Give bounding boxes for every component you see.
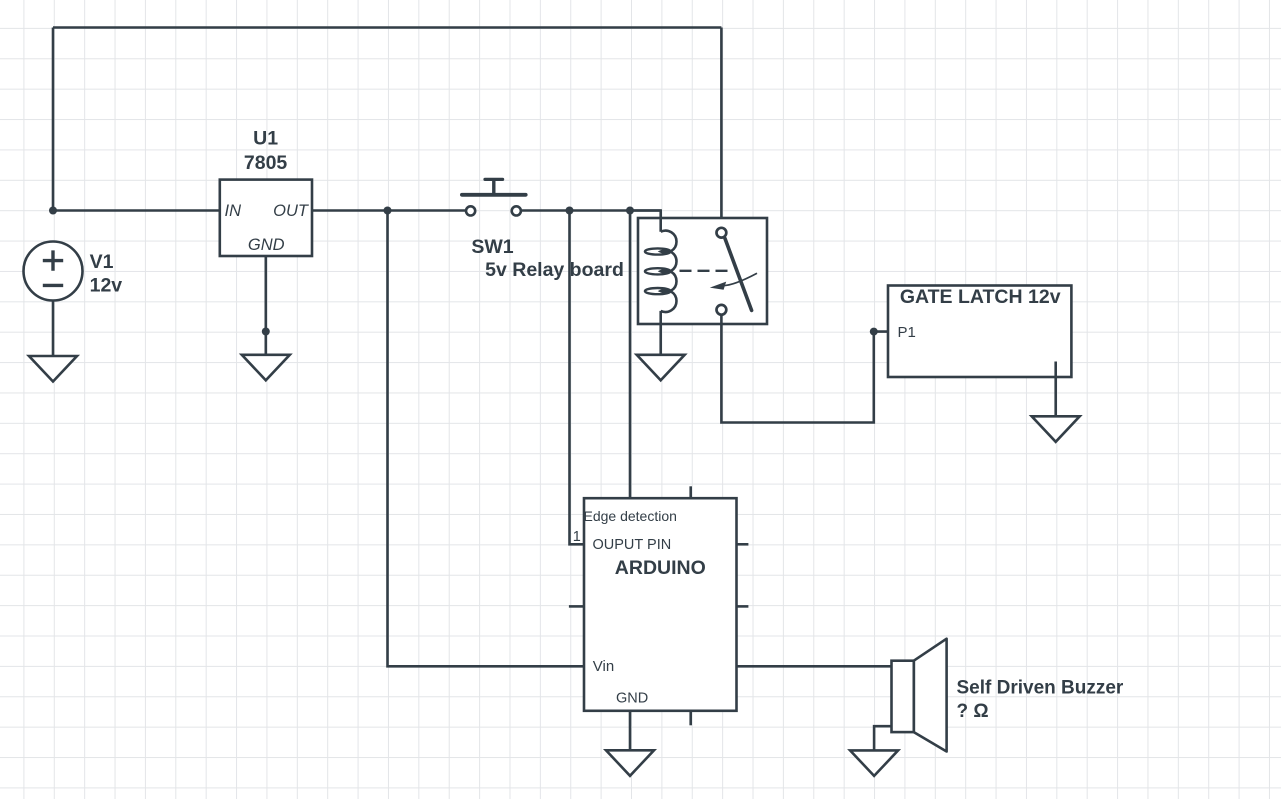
wire U1 GND to ground	[264, 256, 267, 355]
svg-text:ARDUINO: ARDUINO	[615, 557, 706, 579]
wire V1 to top rail	[52, 28, 55, 211]
regulator U1 7805	[220, 180, 312, 256]
pin Arduino right row1 stub	[737, 543, 749, 546]
ground buzzer	[850, 750, 898, 776]
svg-text:12v: 12v	[90, 275, 123, 297]
label ? ohm	[957, 701, 989, 722]
label 5v Relay board	[485, 259, 624, 281]
svg-text:? Ω: ? Ω	[957, 701, 989, 722]
relay actuation arrow	[710, 273, 757, 290]
wire U1 OUT to SW1	[312, 209, 466, 212]
wire output rail to Arduino pin 1	[570, 211, 585, 545]
svg-text:IN: IN	[225, 202, 242, 220]
svg-text:1: 1	[573, 529, 581, 545]
pin Arduino top stub	[689, 486, 692, 498]
wire main rail V1 to U1 IN	[53, 209, 220, 212]
switch SW1	[462, 179, 526, 215]
relay coil	[645, 231, 677, 312]
svg-text:GATE LATCH 12v: GATE LATCH 12v	[900, 286, 1061, 308]
relay NO contact	[717, 305, 727, 315]
wire top rail	[53, 26, 721, 29]
pin Arduino bottom stub	[689, 711, 692, 726]
svg-text:7805: 7805	[244, 152, 288, 174]
wire Arduino to buzzer	[737, 665, 892, 668]
svg-text:Self Driven Buzzer: Self Driven Buzzer	[957, 677, 1124, 698]
label V1	[90, 251, 114, 273]
voltage source V1	[24, 242, 83, 301]
wire SW1 to relay coil	[522, 209, 661, 212]
svg-text:5v Relay board: 5v Relay board	[485, 259, 624, 281]
node OUT junction to Vin feed	[384, 207, 392, 215]
label 7805	[244, 152, 288, 174]
pin Arduino right row2 stub	[737, 605, 749, 608]
node U1 GND stem	[262, 328, 270, 336]
relay box	[638, 218, 767, 324]
wire to Arduino edge detection pin	[629, 211, 632, 509]
label Self Driven Buzzer	[957, 677, 1124, 698]
svg-text:GND: GND	[248, 236, 285, 254]
module GATE LATCH 12v	[888, 286, 1071, 378]
wire relay NO to gate latch P1	[721, 314, 888, 423]
wire coil lead	[630, 211, 661, 232]
svg-text:SW1: SW1	[471, 236, 513, 258]
module ARDUINO	[573, 498, 737, 711]
wire V1 to ground	[52, 301, 55, 357]
wire Arduino GND pin to ground	[629, 711, 632, 751]
wire buzzer to ground	[874, 726, 891, 750]
gate latch ground pin	[1054, 362, 1057, 417]
svg-text:OUT: OUT	[273, 202, 310, 220]
node output rail junction 1	[566, 207, 574, 215]
wire top rail to relay common	[720, 28, 723, 229]
label SW1	[471, 236, 513, 258]
node junction at V1	[49, 207, 57, 215]
ground Arduino	[606, 750, 654, 776]
svg-text:Vin: Vin	[593, 658, 614, 675]
node P1	[870, 328, 878, 336]
relay common contact	[717, 228, 727, 238]
ground U1	[242, 355, 290, 381]
node output rail junction 2	[626, 207, 634, 215]
ground gate latch	[1032, 416, 1080, 442]
svg-text:Edge detection: Edge detection	[584, 508, 677, 524]
ground relay	[637, 355, 685, 381]
svg-text:V1: V1	[90, 251, 114, 273]
relay blade	[725, 238, 752, 310]
svg-text:U1: U1	[253, 128, 278, 150]
pin Arduino left mid stub	[569, 605, 584, 608]
svg-text:GND: GND	[616, 691, 648, 707]
ground V1	[29, 356, 77, 382]
wire relay coil to ground	[659, 311, 662, 355]
buzzer LS1	[892, 639, 947, 752]
label U1	[253, 128, 278, 150]
relay dashed link	[680, 270, 728, 272]
label 12v	[90, 275, 123, 297]
svg-text:P1: P1	[898, 324, 916, 341]
svg-text:OUPUT PIN: OUPUT PIN	[593, 537, 672, 553]
wire Vin feed to Arduino	[388, 211, 585, 667]
